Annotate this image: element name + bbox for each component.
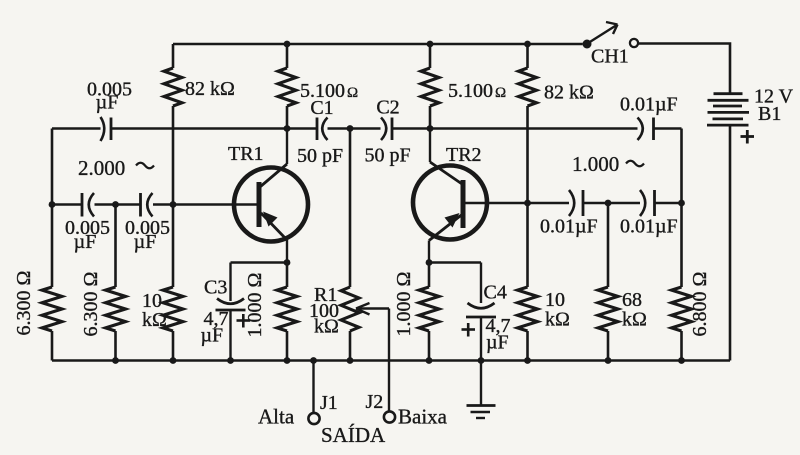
svg-text:2.000: 2.000 — [78, 156, 125, 180]
resistor 68 kohm — [598, 203, 647, 361]
ground — [467, 361, 496, 419]
node bottom rail junction R1 — [347, 357, 354, 364]
transistor TR2 — [413, 129, 487, 263]
wire coupling line left — [52, 127, 317, 130]
svg-text:1.000 Ω: 1.000 Ω — [393, 272, 415, 337]
svg-text:1.000 Ω: 1.000 Ω — [244, 273, 266, 338]
node TR2 collector junction — [427, 125, 434, 132]
resistor 1.000 ohm (TR2 emitter) — [393, 263, 439, 361]
svg-text:J2: J2 — [366, 391, 384, 413]
svg-text:kΩ: kΩ — [545, 309, 570, 331]
jack J1 — [308, 392, 337, 424]
wire J1 — [312, 361, 314, 413]
wire coupling line right — [393, 127, 638, 130]
svg-text:kΩ: kΩ — [622, 309, 647, 331]
wire bottom rail — [52, 126, 730, 361]
svg-text:J1: J1 — [320, 392, 338, 414]
resistor 5.100 ohm (left) — [278, 44, 358, 129]
svg-text:50 pF: 50 pF — [365, 145, 411, 167]
node TR2 emitter junction — [426, 259, 433, 266]
svg-text:µF: µF — [486, 332, 509, 354]
svg-text:Baixa: Baixa — [398, 405, 448, 429]
node bottom rail junction F — [605, 357, 612, 364]
node TR1 base junction — [170, 201, 177, 208]
resistor 82 kohm (left) — [164, 44, 235, 205]
svg-text:SAÍDA: SAÍDA — [321, 423, 386, 447]
svg-text:CH1: CH1 — [591, 46, 629, 68]
capacitor 0.01 uF (series D) — [620, 190, 678, 238]
wire C1C2 junction down to R1 — [349, 129, 352, 288]
node TR2 base junction — [524, 200, 531, 207]
wire emitter to C3 — [231, 261, 288, 264]
node bottom rail junction J1 — [310, 357, 317, 364]
svg-text:C3: C3 — [204, 277, 227, 299]
svg-text:C2: C2 — [376, 97, 399, 119]
svg-text:µF: µF — [96, 92, 119, 114]
svg-text:kΩ: kΩ — [314, 316, 339, 338]
capacitor 0.005 uF (top left) — [87, 79, 132, 142]
node mid junction 68k — [605, 200, 612, 207]
svg-text:TR2: TR2 — [446, 144, 482, 166]
wire base line TR1 — [52, 203, 258, 206]
svg-text:6.300 Ω: 6.300 Ω — [80, 272, 102, 337]
wire switch to battery — [638, 44, 730, 94]
svg-text:50 pF: 50 pF — [297, 145, 343, 167]
node bottom rail junction D — [426, 357, 433, 364]
svg-text:B1: B1 — [758, 103, 781, 125]
resistor 6.300 ohm (second) — [80, 205, 126, 361]
wiper arrow R1 — [356, 303, 389, 411]
svg-text:6.800 Ω: 6.800 Ω — [689, 272, 711, 337]
node TR1 emitter junction — [284, 259, 291, 266]
node C1-C2 junction — [347, 125, 354, 132]
wire coupling line far right — [655, 127, 682, 130]
svg-text:82 kΩ: 82 kΩ — [544, 82, 594, 104]
label 1.000 Hz section — [572, 152, 644, 176]
node bottom rail junction C3 — [227, 357, 234, 364]
wire top supply rail — [173, 43, 583, 46]
resistor 6.800 ohm — [672, 129, 712, 361]
label SAIDA — [321, 423, 386, 447]
wire 82k to 10k right — [526, 203, 529, 287]
resistor 82 kohm (right) — [519, 44, 594, 203]
svg-text:µF: µF — [134, 231, 157, 253]
wire 82k to 10k — [172, 205, 175, 288]
svg-text:0.01µF: 0.01µF — [540, 216, 598, 238]
svg-text:Ω: Ω — [495, 85, 506, 101]
svg-text:TR1: TR1 — [228, 143, 264, 165]
label Baixa — [398, 405, 448, 429]
wire emitter to C4 — [429, 261, 481, 264]
node supply rail junction 2 — [427, 41, 434, 48]
resistor 1.000 ohm (TR1 emitter) — [244, 263, 297, 361]
node left base junction — [49, 201, 56, 208]
jack J2 — [366, 391, 396, 423]
resistor 6.300 ohm (far left) — [13, 129, 62, 361]
wire base line TR2 — [466, 202, 682, 205]
svg-text:µF: µF — [201, 325, 224, 347]
capacitor 0.005 uF (series B) — [125, 193, 170, 253]
resistor 5.100 ohm (right) — [421, 44, 506, 129]
transistor TR1 — [228, 129, 308, 263]
capacitor 0.005 uF (series A) — [65, 193, 110, 253]
label C1 — [310, 97, 333, 119]
svg-text:82 kΩ: 82 kΩ — [185, 78, 235, 100]
wire coupling line mid — [328, 127, 381, 130]
svg-text:µF: µF — [74, 231, 97, 253]
capacitor C4 4.7 uF — [462, 263, 511, 361]
label 2.000 Hz section — [78, 156, 154, 180]
svg-text:6.300 Ω: 6.300 Ω — [13, 271, 35, 336]
switch CH1 — [583, 22, 639, 68]
svg-text:C4: C4 — [484, 282, 507, 304]
potentiometer R1 100 kohm — [309, 284, 359, 361]
svg-text:Alta: Alta — [258, 405, 295, 429]
node TR1 collector junction — [284, 125, 291, 132]
svg-text:Ω: Ω — [347, 85, 358, 101]
node bottom rail junction B — [170, 357, 177, 364]
node supply rail junction 3 — [524, 41, 531, 48]
resistor 10 kohm (left) — [142, 287, 183, 361]
svg-text:C1: C1 — [310, 97, 333, 119]
node bottom rail junction E — [524, 357, 531, 364]
node right column base junction — [678, 200, 685, 207]
label Alta — [258, 405, 295, 429]
capacitor C2 50 pF — [365, 118, 411, 167]
svg-text:5.100: 5.100 — [448, 80, 493, 102]
capacitor C1 50 pF — [297, 118, 343, 168]
node base-cap junction A — [112, 201, 119, 208]
capacitor 0.01 uF (series C) — [540, 190, 598, 238]
svg-text:0.01µF: 0.01µF — [620, 94, 678, 116]
capacitor C3 4.7 uF — [201, 263, 251, 361]
svg-text:kΩ: kΩ — [142, 309, 167, 331]
node bottom rail junction G — [678, 357, 685, 364]
capacitor 0.01 uF (top right) — [620, 94, 678, 141]
node bottom rail junction C — [284, 357, 291, 364]
battery B1 12V — [707, 86, 794, 144]
label C2 — [376, 97, 399, 119]
svg-text:0.01µF: 0.01µF — [620, 216, 678, 238]
node supply rail junction 1 — [284, 41, 291, 48]
resistor 10 kohm (right) — [518, 287, 570, 361]
svg-text:1.000: 1.000 — [572, 152, 619, 176]
node bottom rail junction A — [112, 357, 119, 364]
node bottom rail junction C4 — [478, 357, 485, 364]
